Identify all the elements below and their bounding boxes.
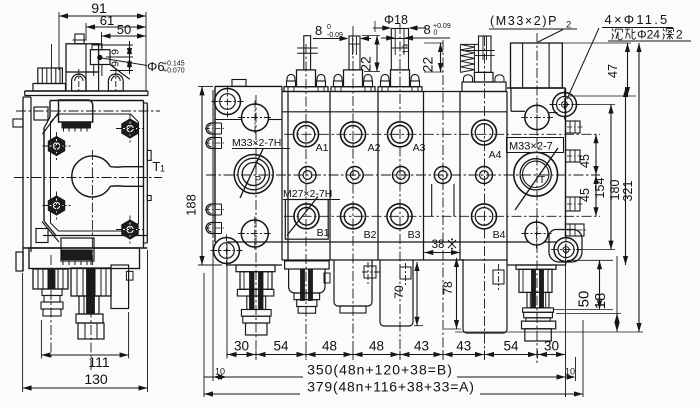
- relief valve center stack: [71, 268, 111, 339]
- svg-text:0: 0: [434, 30, 438, 37]
- base tier: [29, 248, 140, 269]
- port A4: [472, 120, 497, 145]
- centerline relief center: [90, 255, 92, 372]
- svg-text:180: 180: [608, 180, 622, 201]
- svg-text:B1: B1: [317, 227, 330, 239]
- hex bolt lv1: [43, 132, 71, 160]
- dim 70: [392, 262, 423, 326]
- port labels A row: [316, 142, 502, 161]
- solenoid block: [59, 100, 93, 132]
- left wing tab: [13, 119, 23, 127]
- centerline spacer: [442, 40, 444, 360]
- dim 38 spacer: [424, 238, 460, 255]
- body top line: [282, 91, 507, 93]
- right cover outline: [507, 88, 566, 265]
- port P: [234, 149, 273, 198]
- svg-text:50: 50: [117, 22, 131, 37]
- top cover plate: [25, 84, 148, 96]
- dim row section widths: [227, 339, 566, 359]
- left edge nub a: [205, 123, 224, 134]
- right edge nub upper: [147, 150, 151, 160]
- right cover top circle: [521, 101, 553, 133]
- dim row 350: [204, 240, 566, 397]
- svg-text:4×Φ11.5: 4×Φ11.5: [605, 12, 670, 27]
- label phi6 tolerance: [97, 55, 185, 75]
- svg-text:45: 45: [578, 154, 592, 168]
- left cover top circle: [238, 101, 272, 135]
- dim phi18 spool3: [373, 13, 426, 32]
- mid circle 5: [476, 167, 493, 184]
- port A1: [294, 122, 319, 147]
- bolt bracket bottom-right: [549, 229, 582, 262]
- svg-text:18: 18: [592, 293, 609, 310]
- hex bolt lv4: [116, 216, 144, 244]
- dim 321: [455, 43, 643, 332]
- svg-text:10: 10: [565, 367, 575, 377]
- left cover ledge lines: [215, 80, 282, 120]
- port A2: [341, 122, 366, 147]
- centerline horizontal main: [14, 177, 162, 179]
- dim 50 lower right: [553, 260, 613, 309]
- centerline B row: [284, 215, 600, 217]
- return spring: [460, 44, 474, 72]
- dim 61 horizontal: [86, 13, 146, 40]
- dim 188 vertical: [184, 86, 223, 265]
- svg-text:111: 111: [88, 354, 109, 370]
- slash through B1: [287, 197, 318, 236]
- dim 50 horizontal: [102, 22, 147, 48]
- dim 111: [41, 312, 128, 370]
- mount bolt bottom-left: [211, 235, 243, 267]
- centerline P column: [255, 95, 257, 360]
- svg-text:38: 38: [432, 239, 445, 251]
- left edge nub b: [205, 138, 224, 149]
- hex bolt lv2: [116, 115, 144, 143]
- svg-text:B4: B4: [493, 229, 506, 241]
- svg-text:61: 61: [100, 13, 114, 28]
- mid circle 1: [299, 167, 316, 184]
- svg-text:B3: B3: [408, 229, 421, 241]
- spool stem 2: [349, 36, 360, 70]
- svg-text:A4: A4: [489, 149, 502, 161]
- centerline relief left: [50, 255, 52, 360]
- svg-text:379(48n+116+38+33=A): 379(48n+116+38+33=A): [307, 379, 475, 395]
- port fitting block top-left: [38, 44, 63, 84]
- svg-text:10: 10: [215, 367, 225, 377]
- port B2: [341, 204, 366, 229]
- right edge nub lower: [147, 196, 151, 201]
- svg-text:43: 43: [456, 339, 471, 354]
- right cover bottom circle: [522, 219, 552, 249]
- right end ext lines: [565, 320, 583, 397]
- relief under section1: [285, 261, 330, 313]
- centerline mid row: [206, 174, 600, 176]
- svg-text:188: 188: [184, 194, 199, 216]
- port T: [514, 148, 558, 210]
- svg-text:A2: A2: [368, 142, 381, 154]
- svg-text:M27×2-7H: M27×2-7H: [283, 188, 332, 200]
- svg-text:Φ24: Φ24: [637, 28, 660, 42]
- dome bolt left-top a: [72, 69, 86, 93]
- body bottom line: [227, 241, 566, 243]
- svg-text:78: 78: [441, 281, 455, 295]
- relief under T cover: [516, 265, 556, 341]
- section boundary x423.5: [423, 92, 425, 261]
- svg-text:54: 54: [503, 339, 519, 354]
- spacer inner walls: [432, 184, 454, 216]
- mount bolt top-left: [212, 86, 244, 118]
- dim 78: [441, 258, 461, 329]
- main body outline: [23, 101, 147, 249]
- centerline T column: [536, 33, 538, 365]
- port A3: [388, 122, 413, 147]
- label M33x2-7H left: [232, 137, 290, 149]
- dim 91 horizontal: [59, 0, 146, 90]
- left edge nub d: [205, 223, 224, 234]
- svg-text:8: 8: [424, 22, 431, 37]
- svg-text:54: 54: [273, 339, 289, 354]
- section boundary x330: [329, 92, 331, 261]
- svg-text:154: 154: [593, 178, 607, 199]
- centerline section2: [352, 26, 354, 360]
- mid circle 2: [346, 167, 363, 184]
- body right plate: [144, 101, 148, 249]
- B1 boss box: [285, 200, 328, 240]
- svg-text:22: 22: [420, 57, 436, 73]
- svg-text:50: 50: [576, 291, 593, 308]
- bracket upright: [66, 34, 99, 91]
- svg-text:0: 0: [327, 24, 331, 31]
- mid circle 3: [393, 167, 410, 184]
- relief valve left stack: [33, 269, 68, 316]
- svg-text:Φ18: Φ18: [384, 13, 408, 27]
- cover under A4 section: [463, 259, 507, 333]
- svg-text:T: T: [539, 175, 545, 186]
- centerline section1: [305, 44, 307, 360]
- relief under section2: [334, 260, 382, 313]
- section boundary x282: [281, 86, 283, 260]
- svg-text:A1: A1: [316, 142, 329, 154]
- bonnet flange section 3: [378, 70, 422, 92]
- spool stem 3 wide: [391, 29, 408, 70]
- right edge nub b: [566, 150, 584, 162]
- right cover step: [511, 88, 558, 113]
- centerline section3: [399, 24, 401, 360]
- svg-text:321: 321: [621, 181, 635, 202]
- bottom-left notch: [16, 252, 23, 271]
- dim 8 -0.09 spool2: [313, 23, 371, 41]
- spool stem 4: [460, 36, 494, 72]
- left cover bottom circle: [238, 217, 272, 251]
- port B1: [294, 204, 319, 229]
- svg-text:47: 47: [606, 64, 620, 78]
- centerline vertical keyhole: [91, 150, 93, 272]
- far-left plate: [23, 97, 31, 271]
- dim 9.9 vertical pair: [92, 41, 133, 74]
- label T1: [153, 160, 166, 174]
- label M27x2-7H: [283, 188, 340, 200]
- label M33x2 P2: [489, 14, 577, 42]
- port B4: [472, 204, 497, 229]
- right edge nub a: [566, 121, 584, 133]
- bonnet flange section 4: [462, 72, 506, 91]
- svg-text:B2: B2: [364, 229, 377, 241]
- port B3: [387, 204, 412, 229]
- section boundary x378: [377, 92, 379, 261]
- svg-text:130: 130: [84, 371, 108, 387]
- dim 22 spool4: [420, 43, 444, 72]
- svg-text:M33×2-7H: M33×2-7H: [232, 137, 281, 149]
- mount bolt bottom-right: [551, 235, 581, 265]
- bonnet flange section 2: [331, 70, 375, 92]
- label M33x2-7 boxed: [507, 138, 564, 153]
- svg-text:22: 22: [358, 56, 374, 72]
- dim row 379: [204, 379, 583, 397]
- centerline horizontal upper: [16, 110, 160, 112]
- label 4x phi11.5: [602, 12, 673, 28]
- mid circle 4: [434, 167, 451, 184]
- side block right of relief: [111, 265, 133, 309]
- open box with diagonal: [34, 107, 59, 243]
- dim 18 lower right: [556, 256, 621, 332]
- cover under section3: [380, 260, 413, 326]
- left cover outline: [213, 86, 282, 265]
- svg-text:2: 2: [676, 28, 683, 42]
- ext lines bottom: [227, 244, 566, 397]
- svg-text:+0.070: +0.070: [163, 68, 185, 75]
- hex bolt lv3: [43, 192, 71, 220]
- svg-text:70: 70: [392, 285, 406, 299]
- svg-text:Φ6: Φ6: [147, 59, 165, 74]
- svg-text:M33×2-7: M33×2-7: [509, 141, 553, 153]
- lever pivot block with pin: [90, 44, 110, 76]
- svg-text:350(48n+120+38=B): 350(48n+120+38=B): [307, 362, 453, 378]
- svg-text:(M33×2)P: (M33×2)P: [490, 14, 558, 28]
- svg-text:A3: A3: [413, 142, 426, 154]
- dim 8 +0.09 spool3 slot: [381, 22, 451, 41]
- spool stem 1: [297, 36, 318, 70]
- left edge nub c: [205, 204, 224, 215]
- svg-text:30: 30: [234, 339, 249, 354]
- svg-text:48: 48: [322, 339, 337, 354]
- svg-text:1: 1: [160, 164, 165, 174]
- port labels B row: [317, 227, 506, 241]
- dim 22 spool2: [358, 36, 381, 72]
- section boundary x460: [459, 92, 461, 261]
- svg-text:19: 19: [401, 44, 411, 54]
- dome bolt left-top b: [108, 69, 123, 93]
- bonnet flange section 1: [284, 70, 328, 92]
- right edge nub c: [566, 197, 584, 211]
- svg-text:48: 48: [369, 339, 384, 354]
- dim 45 upper: [578, 134, 599, 175]
- svg-text:45: 45: [578, 188, 592, 202]
- dim 180: [608, 88, 628, 265]
- dim 154: [573, 105, 615, 250]
- svg-text:8: 8: [315, 23, 322, 38]
- dim 47: [562, 43, 636, 96]
- P2 block: [511, 43, 563, 88]
- dim 45 lower: [578, 175, 599, 216]
- section boundary x507: [506, 92, 508, 261]
- diagonal link rod: [110, 65, 130, 80]
- body upper line: [282, 111, 507, 113]
- svg-text:30: 30: [544, 339, 559, 354]
- section boundary x288: [287, 92, 289, 261]
- dim 19 spool3 slot: [401, 44, 411, 54]
- body foot line: [282, 259, 507, 261]
- relief under P cover: [236, 265, 275, 335]
- centerline section4: [484, 36, 486, 360]
- centerline A row: [284, 133, 600, 135]
- dim 130: [23, 250, 148, 392]
- keyhole slot opening: [72, 156, 143, 197]
- svg-text:+0.145: +0.145: [163, 61, 185, 68]
- inner face contour: [51, 114, 139, 231]
- right edge nub d: [566, 224, 588, 236]
- svg-text:43: 43: [414, 339, 429, 354]
- label counterbore phi24 depth2: [567, 28, 691, 100]
- svg-text:9: 9: [110, 49, 122, 55]
- mount bolt top-right: [550, 90, 580, 120]
- dark block lower-left: [61, 238, 94, 265]
